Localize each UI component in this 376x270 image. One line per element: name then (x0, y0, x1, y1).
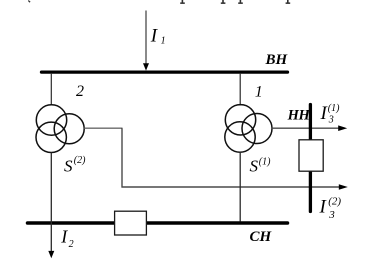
svg-text:СН: СН (250, 229, 273, 245)
transformer T1 winding 1 (top circle) (225, 105, 255, 135)
svg-text:(2): (2) (74, 155, 86, 166)
wire transformer 1 to CH bus (239, 152, 241, 222)
wire BH bus to transformer 2 (50, 73, 52, 106)
bus HH (НН, low-voltage busbar, vertical) (309, 105, 312, 212)
svg-text:I: I (319, 197, 328, 218)
svg-text:I: I (60, 227, 68, 247)
cropped text descender artifacts (top edge) (28, 0, 290, 4)
svg-text:(2): (2) (328, 196, 341, 208)
svg-text:S: S (64, 156, 73, 175)
bus BH (ВН, high-voltage busbar) (42, 70, 288, 73)
svg-text:2: 2 (76, 83, 84, 100)
svg-text:1: 1 (255, 84, 263, 101)
svg-text:ВН: ВН (265, 52, 289, 68)
svg-text:(1): (1) (328, 103, 340, 114)
transformer T2 winding 2 (right circle) (54, 114, 84, 144)
transformer T1 winding 3 (bottom circle) (225, 122, 255, 152)
svg-text:I: I (150, 26, 159, 47)
svg-text:2: 2 (69, 239, 74, 250)
transformer T2 winding 3 (bottom circle) (36, 122, 66, 152)
svg-text:S: S (250, 156, 259, 175)
load box on CH bus (115, 211, 147, 235)
svg-text:3: 3 (328, 209, 335, 221)
arrowhead I2 (48, 251, 54, 258)
svg-text:НН: НН (287, 107, 311, 123)
wire / arrow I3(1) (from transformer 1 right winding to arrowhead) (272, 127, 340, 129)
transformer T1 winding 2 (right circle) (242, 114, 272, 144)
svg-text:3: 3 (328, 115, 334, 126)
transformer T2 winding 1 (top circle) (36, 105, 66, 135)
svg-text:(1): (1) (259, 157, 271, 168)
svg-text:1: 1 (161, 36, 166, 47)
wire / arrow I3(2) (horizontal line y=187 to arrowhead) (121, 186, 340, 188)
arrow I1 (current into BH bus) (145, 11, 147, 65)
wire BH bus to transformer 1 (239, 73, 241, 106)
bus CH (СН, medium-voltage busbar) (28, 221, 288, 225)
wire transformer 2 middle winding to I3(2) line (right then down) (84, 127, 122, 129)
wire transformer 2 to CH bus and I2 arrow stem (50, 153, 52, 253)
load box on HH bus (299, 140, 323, 171)
